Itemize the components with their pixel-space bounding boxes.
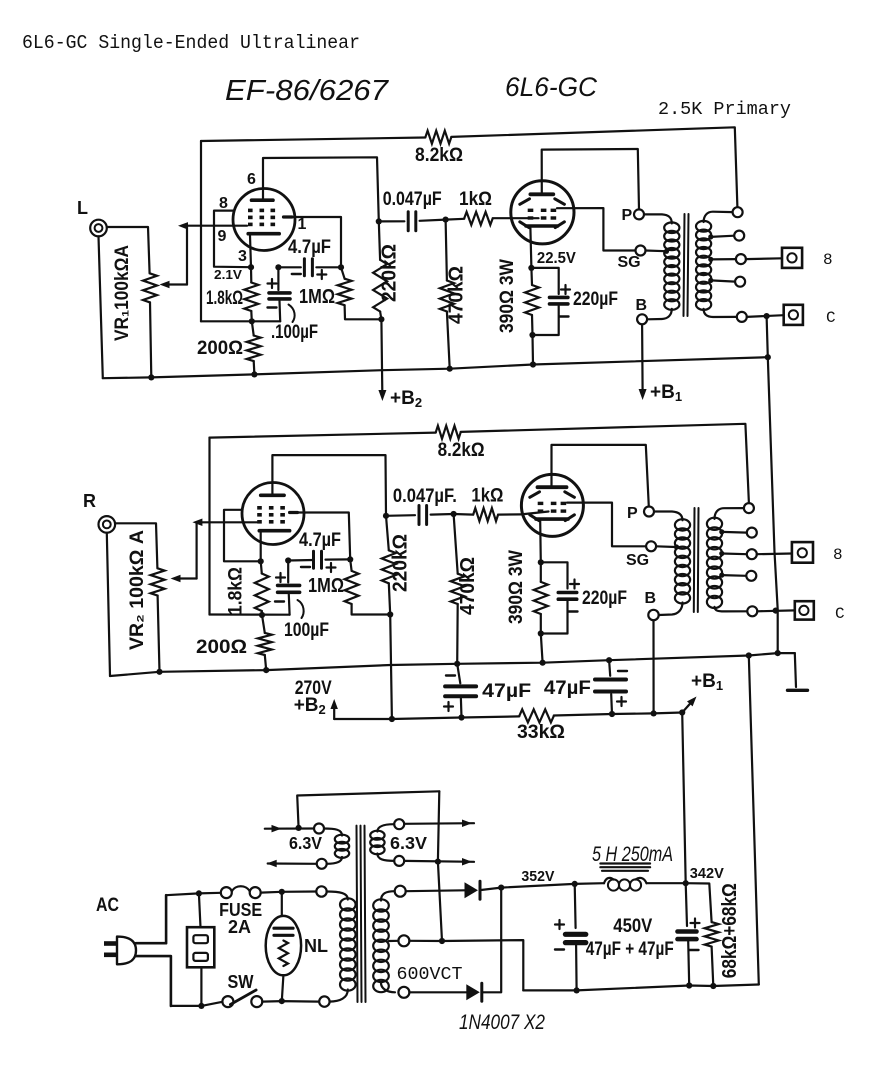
wire 4.7u node to 1M and down to 220k bottom [341, 267, 345, 278]
junction dot 1.8k bottom channel 2 [259, 612, 265, 618]
342V node [683, 880, 689, 886]
T1 core [684, 214, 685, 316]
svg-text:5 H 250‌mA: 5 H 250‌mA [592, 843, 673, 866]
wire V4 plate to T2 P terminal [552, 445, 649, 507]
T2 secondary terminals [744, 503, 754, 513]
resistor 470kOhm channel 2 [451, 574, 465, 604]
HV secondary terminals [395, 886, 406, 897]
AC plug [104, 941, 117, 946]
transformer T1 SG terminal [636, 246, 646, 256]
V3 cathode bar [259, 529, 289, 533]
AC top rail to fuse [166, 893, 221, 895]
fuse 2A [221, 887, 232, 898]
AC plug wires [136, 895, 166, 943]
svg-text:342V: 342V [690, 865, 724, 882]
wire center-tap ground riser [438, 791, 442, 941]
wire VR2 bottom to ground bus 2 [158, 596, 160, 672]
wire VR1 bottom to ground bus [150, 302, 151, 377]
AC bottom rail to switch [171, 1002, 223, 1006]
capacitor 47uF+47uF section 2 [686, 883, 687, 926]
svg-text:200Ω: 200Ω [196, 636, 247, 658]
heater winding 6.3V right coil [377, 824, 394, 831]
svg-text:L: L [77, 198, 88, 218]
transformer T2 SG terminal [646, 541, 656, 551]
T1 primary winding [644, 214, 672, 223]
svg-text:2.1V: 2.1V [214, 267, 242, 282]
V4 cathode bar [536, 517, 568, 521]
neon lamp NL [281, 892, 283, 916]
T2 primary winding [654, 512, 683, 521]
diode D2 1N4007 [409, 991, 466, 993]
wire bottom tap to terminal C channel 1 [747, 315, 784, 317]
svg-text:390Ω 3W: 390Ω 3W [506, 550, 527, 624]
wire V2 screen to SG terminal [557, 208, 636, 250]
svg-text:VR₁100kΩA: VR₁100kΩA [112, 245, 133, 341]
wire C junction down right-side ground link [767, 316, 778, 653]
power transformer primary terminals [316, 886, 326, 896]
svg-text:4.7µF: 4.7µF [288, 237, 331, 258]
svg-text:1: 1 [298, 216, 307, 233]
svg-text:SG: SG [618, 254, 641, 271]
wire V2 cathode down [530, 228, 531, 268]
capacitor 100uF channel 2 [287, 561, 289, 583]
+B supply rail between channels [334, 716, 519, 719]
power switch SW [222, 996, 233, 1007]
power transformer primary winding [327, 892, 348, 900]
heater winding 6.3V left terminals [314, 824, 324, 834]
wire center tap to ground rail [409, 940, 523, 990]
output terminal 8 channel 2 [792, 542, 813, 563]
wire grid from 1k into V2 [511, 217, 538, 219]
wire top feedback run channel 1 [201, 138, 425, 142]
transformer T1 B terminal [637, 314, 647, 324]
wire jack R to VR2 top [115, 523, 157, 568]
wire cathode bottom node channel 1 [201, 320, 280, 322]
wire grid line with arrow to V3 grid [200, 521, 257, 523]
wire V3 plate to coupling node channel 2 [272, 455, 386, 516]
wire T2 B down to +B1 rail [652, 620, 654, 713]
wire VR2 wiper up to grid line [196, 523, 198, 579]
wire V1 pin 8 box to cathode node [214, 211, 251, 268]
VR2 wiper arrow [177, 577, 197, 579]
wire tap to terminal 8 channel 2 [757, 552, 792, 555]
capacitor 4.7uF channel 2 [288, 559, 313, 562]
svg-text:1MΩ: 1MΩ [299, 286, 335, 308]
T2 SG tap wire [656, 545, 675, 548]
svg-text:B: B [636, 297, 648, 314]
svg-text:100µF: 100µF [284, 619, 329, 641]
input jack R [99, 516, 116, 533]
svg-text:390Ω 3W: 390Ω 3W [497, 259, 518, 333]
wire V1 cathode to node [250, 236, 251, 268]
V4 plate bar [538, 485, 567, 489]
wire fuse to transformer primary top [261, 892, 317, 893]
junction dot 1.8k bottom [249, 318, 255, 324]
resistor 220kOhm channel 2 [382, 550, 396, 583]
svg-text:6L6-GC Single-Ended Ultralinea: 6L6-GC Single-Ended Ultralinear [22, 32, 360, 54]
svg-text:352V: 352V [521, 868, 554, 885]
V4 beam plates [530, 492, 540, 498]
svg-text:470kΩ: 470kΩ [446, 266, 468, 324]
resistor 470kOhm channel 1 [440, 281, 454, 312]
svg-text:8: 8 [823, 251, 833, 269]
svg-text:220µF: 220µF [573, 289, 618, 310]
svg-text:1MΩ: 1MΩ [308, 575, 344, 597]
power transformer core [357, 826, 358, 1002]
junction dots cathode node row [248, 264, 254, 270]
svg-text:8.2kΩ: 8.2kΩ [438, 439, 485, 461]
T1 secondary terminals [733, 207, 743, 217]
label 270V +B2 with arrow [333, 706, 335, 719]
ground bus channel 1 [103, 357, 768, 378]
svg-text:EF-86/6267: EF-86/6267 [225, 75, 390, 107]
transformer T1 P terminal [634, 209, 644, 219]
T1 secondary tap wires [708, 234, 713, 239]
wire 390 bottom to bus [531, 335, 534, 365]
wire V1 plate pin 6 to coupling node [263, 157, 379, 221]
wire 8.2k to T2 top tap [461, 424, 749, 503]
wire 1.8k to bottom node [250, 311, 253, 321]
junction dots on +B rail [389, 716, 395, 722]
svg-text:1kΩ: 1kΩ [471, 486, 503, 507]
V3 grid dots [257, 506, 262, 510]
heater wires left with arrows [265, 827, 314, 829]
svg-text:8: 8 [833, 546, 843, 564]
wire top feedback run channel 2 [210, 433, 436, 438]
V3 pin 1 bar and wire to 4.7u node channel 2 [290, 511, 298, 514]
capacitor 4.7uF channel 1 [278, 266, 300, 268]
wire +B2 feed channel 2 down to rail [390, 615, 392, 720]
resistor 390 Ohm 3W channel 2 [534, 582, 548, 614]
capacitor 100uF channel 1 [277, 267, 279, 290]
V2 plate bar [530, 192, 553, 196]
output terminal C channel 1 [784, 305, 803, 325]
V2 beam plates [520, 199, 530, 205]
resistor 220kOhm channel 1 [373, 260, 387, 312]
wire feedback vertical channel 2 [208, 438, 210, 615]
wire ground bus 2 down to PSU ground rail [749, 656, 759, 985]
V3 plate bar [261, 493, 284, 497]
svg-text:SG: SG [626, 552, 649, 569]
T1 secondary winding [696, 221, 711, 232]
wire B to +B1 arrow channel 1 [641, 324, 644, 391]
svg-text:6: 6 [247, 171, 256, 188]
svg-text:22.5V: 22.5V [537, 250, 576, 267]
svg-text:3: 3 [238, 248, 247, 265]
svg-text:220kΩ: 220kΩ [390, 534, 412, 592]
svg-text:C: C [826, 309, 836, 327]
wire 220k to B2 node [380, 312, 381, 320]
svg-text:47µF: 47µF [544, 677, 591, 699]
wire switch to transformer primary bottom [262, 1000, 319, 1003]
junction dots on ground bus 2 [156, 669, 162, 675]
wire jack L to VR1 top [107, 227, 150, 273]
wire jack L sleeve to ground bus [99, 236, 103, 378]
T1 SG tap wire [646, 249, 666, 252]
ground bus channel 2 [110, 653, 795, 676]
capacitor 47uF filter A [457, 664, 460, 684]
tube V4 6L6-GC envelope [521, 474, 583, 536]
capacitor 47uF filter B [609, 660, 610, 676]
T2 secondary winding [707, 518, 722, 530]
svg-text:470kΩ: 470kΩ [457, 557, 479, 615]
V1 grid dots [248, 209, 253, 213]
resistor 1.8kOhm channel 2 [255, 574, 269, 612]
svg-text:6.3V: 6.3V [289, 833, 322, 853]
heater winding 6.3V right terminals [394, 819, 404, 829]
svg-text:NL: NL [304, 936, 328, 956]
transformer T2 B terminal [648, 610, 658, 620]
resistor 200 Ohm channel 2 [258, 633, 272, 655]
svg-text:P: P [622, 207, 633, 224]
T2 secondary tap wires [719, 529, 724, 534]
resistor 1.8kOhm channel 1 [244, 283, 258, 312]
resistor 1MOhm channel 2 [345, 571, 359, 604]
svg-text:VR₂ 100kΩ A: VR₂ 100kΩ A [127, 530, 148, 650]
svg-text:600VCT: 600VCT [397, 965, 463, 985]
output terminal C channel 2 [795, 601, 814, 619]
capacitor 220uF channel 1 [531, 268, 558, 294]
svg-text:1kΩ: 1kΩ [459, 189, 492, 210]
label +B1 with arrow channel 2 [682, 702, 692, 713]
junction dots cathode row channel 2 [258, 558, 264, 564]
voltage selector receptacle [199, 893, 201, 927]
svg-text:47µF: 47µF [482, 680, 531, 702]
wire V3 pin8 box to cathode node [224, 510, 261, 562]
svg-text:.100µF: .100µF [271, 321, 318, 343]
input jack L [90, 220, 107, 237]
svg-text:SW: SW [228, 972, 254, 992]
potentiometer VR1 100kOhm A [143, 273, 157, 302]
tube V3 EF86 envelope [242, 483, 304, 545]
svg-text:1.8kΩ: 1.8kΩ [226, 567, 247, 615]
svg-text:2.5K Primary: 2.5K Primary [658, 100, 791, 120]
resistor 200 Ohm channel 1 [247, 336, 261, 362]
HV secondary 600VCT winding [381, 891, 395, 900]
wire V3 cathode to node [260, 533, 262, 562]
V1 plate bar [252, 198, 274, 202]
wire 0.047 node to 470k to bus [446, 220, 447, 281]
capacitor 47uF+47uF section 1 [574, 884, 577, 928]
svg-text:0.047µF.: 0.047µF. [393, 486, 457, 507]
svg-text:9: 9 [218, 228, 227, 245]
diode D1 1N4007 [406, 889, 465, 892]
capacitor 0.047uF channel 2 [383, 513, 389, 519]
svg-text:220µF: 220µF [582, 588, 627, 609]
wire tap to terminal 8 channel 1 [746, 257, 782, 260]
V1 cathode bar [248, 232, 279, 236]
V4 grid dashes [538, 502, 544, 505]
wire grid from 1k into V4 [521, 512, 548, 515]
wire coupling node to 220k [379, 221, 380, 259]
resistor 390 Ohm 3W channel 1 [525, 285, 539, 315]
wire 8.2k to output transformer top tap [451, 127, 737, 207]
svg-text:220kΩ: 220kΩ [379, 244, 401, 302]
choke 5H 250mA [600, 862, 650, 864]
svg-text:1N4007 X2: 1N4007 X2 [459, 1011, 545, 1034]
svg-text:450V: 450V [613, 916, 652, 937]
wire B2 feed down with arrow +B2 channel 1 [380, 319, 383, 392]
svg-text:P: P [627, 505, 638, 522]
PSU ground rail [523, 985, 759, 991]
T2 core [693, 508, 696, 612]
heater winding 6.3V left coil [324, 829, 342, 836]
svg-text:AC: AC [96, 895, 119, 916]
resistor 1kOhm channel 1 [464, 212, 493, 225]
resistor feedback 8.2kOhm channel 1 [425, 131, 451, 144]
svg-text:33kΩ: 33kΩ [517, 721, 565, 743]
heater wires right with arrows [404, 822, 474, 825]
svg-text:R: R [83, 491, 96, 511]
wire cathode node to 1.8k [250, 267, 253, 282]
svg-text:0.047µF: 0.047µF [383, 189, 442, 210]
wire D2 to 352V node [483, 888, 501, 993]
svg-text:8: 8 [219, 195, 228, 212]
wire cathode bottom node channel 2 [210, 613, 290, 615]
svg-text:4.7µF: 4.7µF [299, 530, 341, 551]
wires around 1k channel 1 [446, 218, 465, 221]
wire bottom tap to terminal C channel 2 [757, 609, 795, 612]
V1 pin 1 bar and wire to 4.7u node [284, 215, 293, 218]
chassis ground symbol [795, 653, 796, 687]
capacitor 0.047uF channel 1 [376, 218, 382, 224]
svg-text:200Ω: 200Ω [197, 337, 243, 359]
wire heater ground link over transformer [297, 791, 439, 828]
svg-text:2A: 2A [228, 917, 251, 937]
svg-text:47µF + 47µF: 47µF + 47µF [586, 939, 674, 960]
potentiometer VR2 100kOhm A [151, 568, 165, 595]
svg-text:68kΩ+68kΩ: 68kΩ+68kΩ [719, 883, 741, 978]
transformer T2 P terminal [644, 507, 654, 517]
wire 390 bottom to bus 2 [541, 634, 543, 663]
wire feedback vertical channel 1 [200, 141, 202, 321]
VR1 wiper arrow [166, 283, 187, 285]
svg-text:8.2kΩ: 8.2kΩ [415, 144, 463, 166]
V2 cathode bar [526, 224, 558, 228]
resistor bleeder 68kOhm + 68kOhm [686, 883, 712, 922]
wire 352V node to choke [501, 884, 575, 888]
resistor 1MOhm channel 1 [338, 279, 352, 306]
resistor feedback 8.2kOhm channel 2 [436, 426, 461, 439]
junction dots on ground bus 1 [148, 374, 154, 380]
wire V4 cathode down [539, 521, 542, 562]
wire grid line with arrow to EF86 pin 9 [186, 225, 247, 227]
wire V4 screen to T2 SG [567, 503, 646, 547]
output terminal 8 channel 1 [782, 248, 802, 268]
tube V2 6L6-GC envelope [511, 181, 574, 244]
wire 4.7u node to 1M to 220k bottom channel 2 [350, 559, 351, 571]
svg-text:1.8kΩ: 1.8kΩ [206, 288, 243, 309]
wire VR1 wiper to grid line [186, 226, 188, 284]
capacitor 220uF channel 2 [541, 562, 568, 588]
tube V1 EF86 envelope [233, 189, 295, 251]
wire V2 plate to transformer P [542, 149, 639, 209]
V2 grid dashes [528, 209, 534, 212]
resistor 1kOhm channel 2 [473, 508, 498, 521]
svg-text:B: B [645, 590, 657, 607]
svg-text:6.3V: 6.3V [390, 833, 427, 853]
wire jack R sleeve to ground bus 2 [107, 533, 110, 676]
wire +B rail to 342V node [682, 713, 686, 884]
svg-text:C: C [835, 605, 845, 623]
svg-text:6L6-GC: 6L6-GC [505, 72, 597, 102]
